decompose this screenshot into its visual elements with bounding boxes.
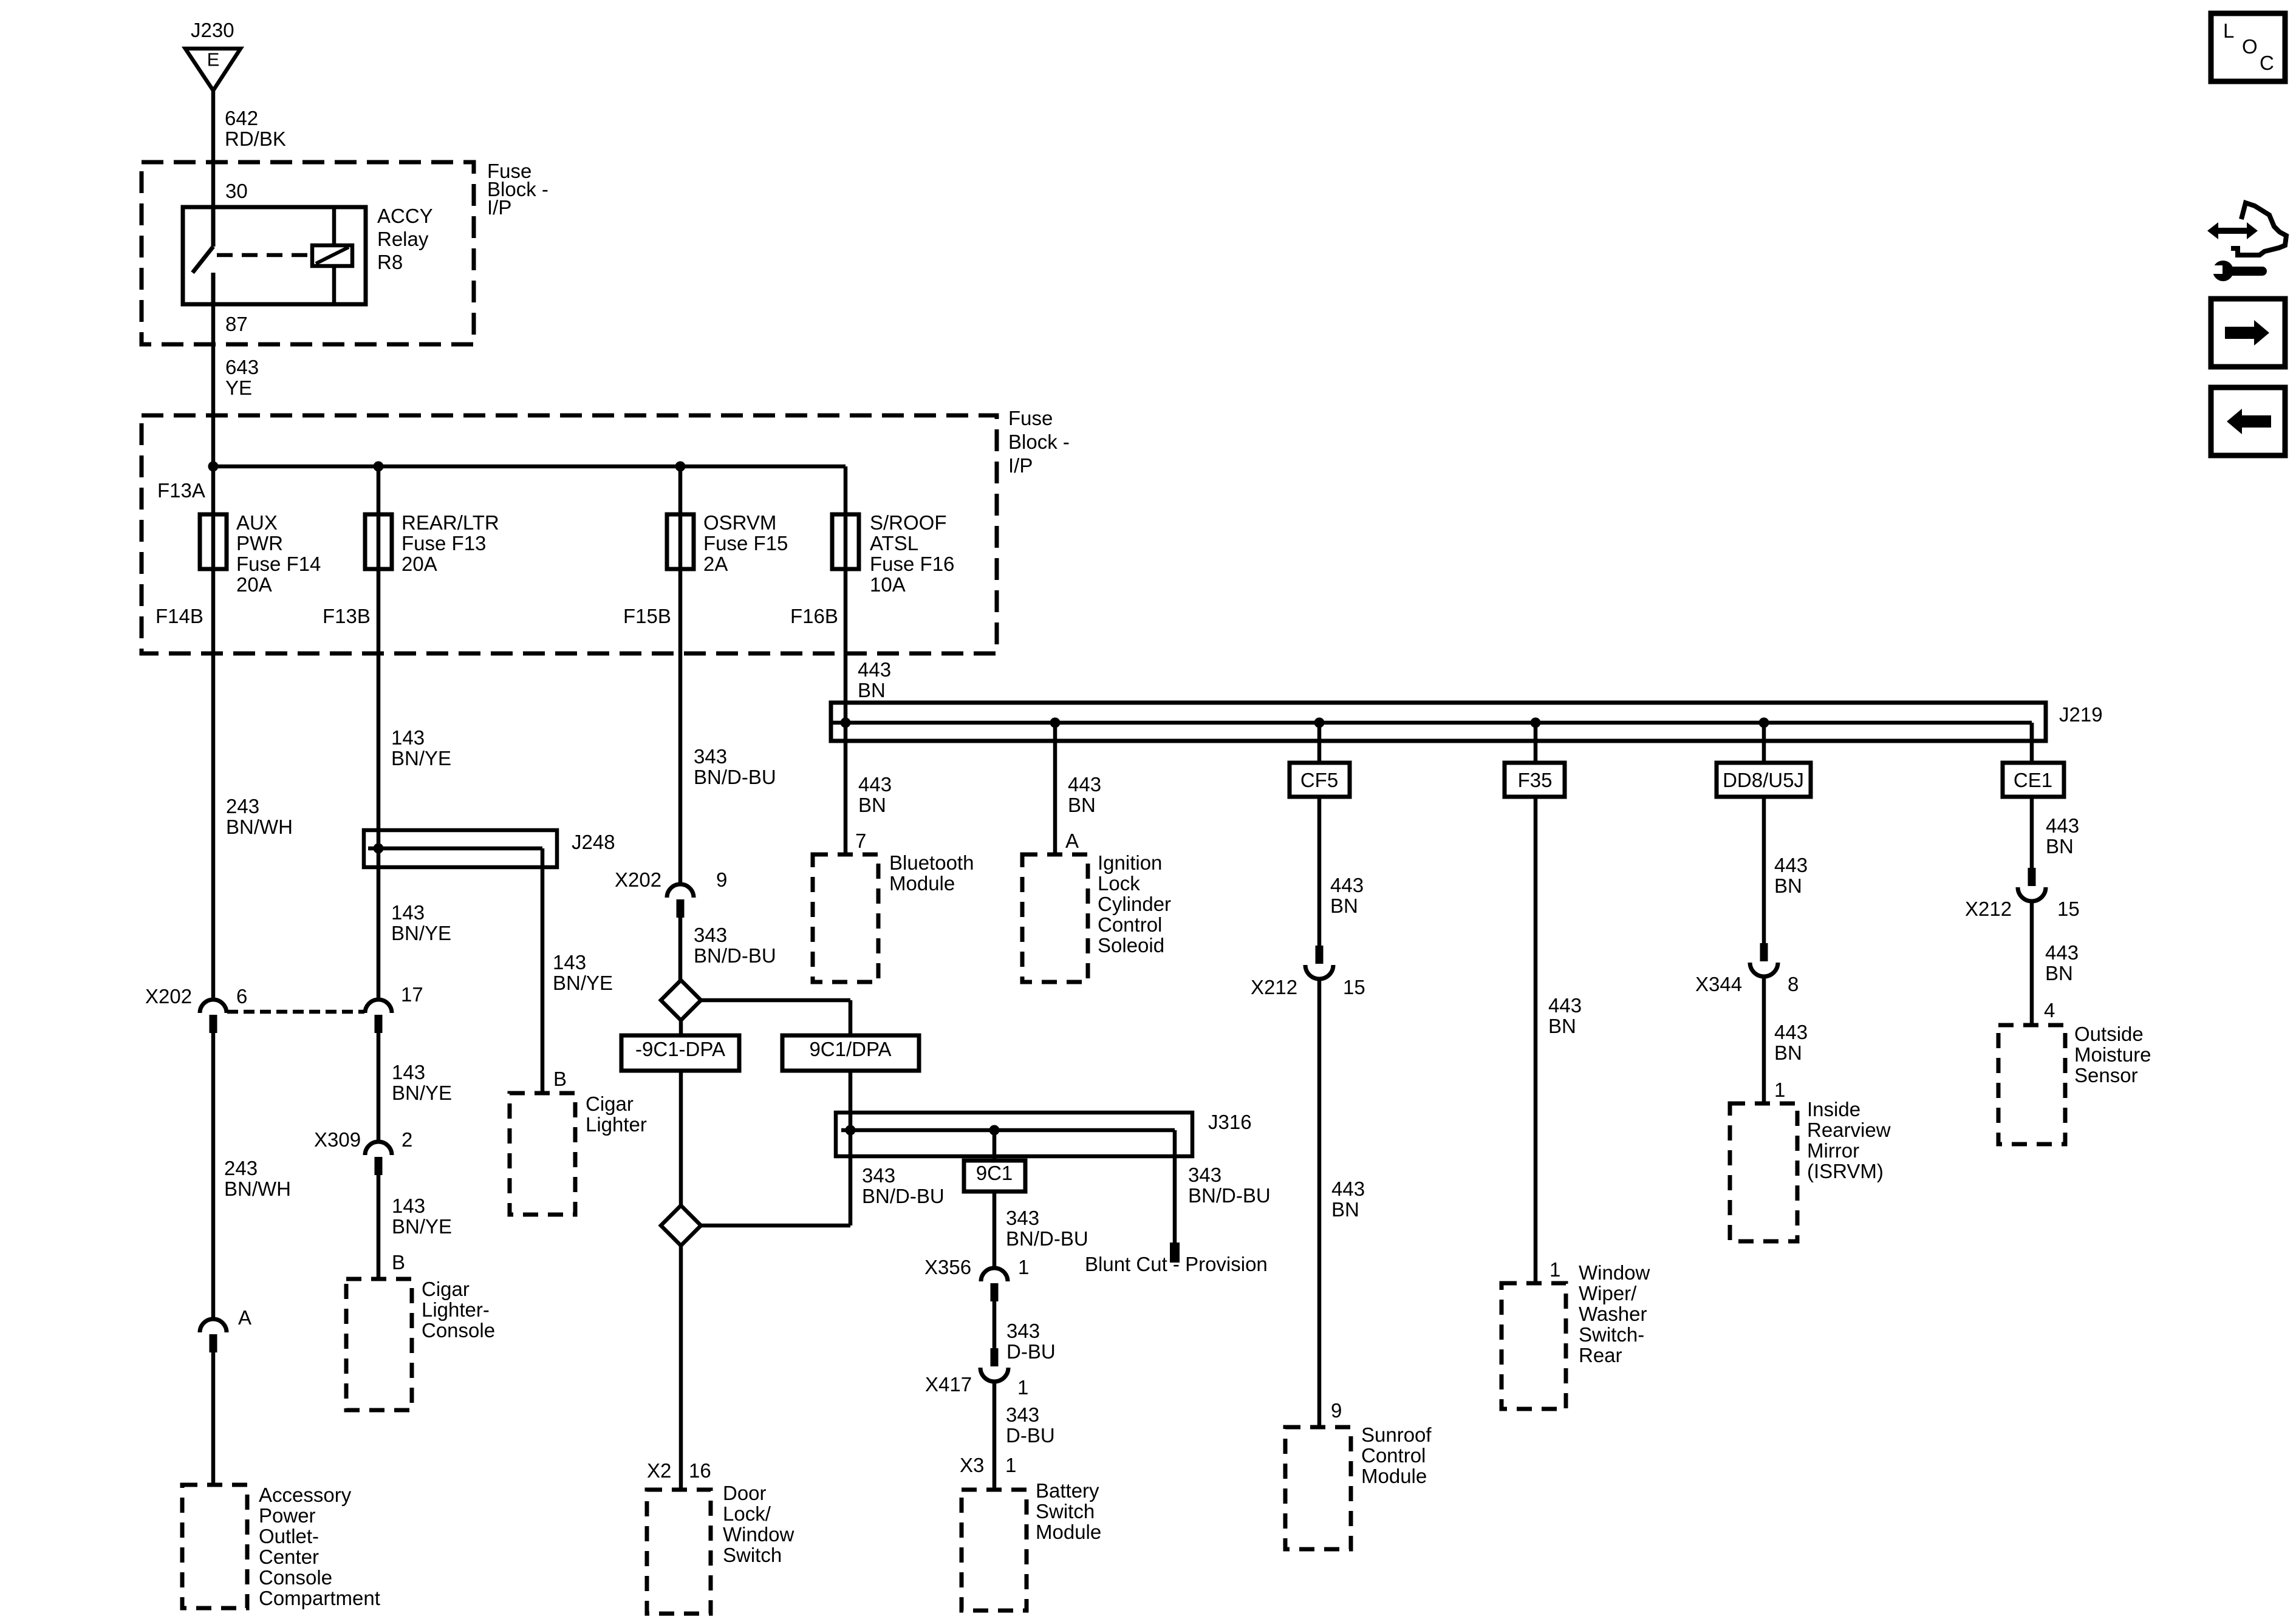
wire 343 BN/D-BU (blunt cut) [1173, 1156, 1177, 1243]
net label CE1 [2003, 763, 2064, 797]
svg-text:DD8/U5J: DD8/U5J [1723, 769, 1804, 791]
wire into 9C1/DPA [849, 1000, 853, 1035]
svg-text:9C1/DPA: 9C1/DPA [809, 1038, 891, 1060]
junction J248 tap [374, 844, 384, 854]
wire J219 to CF5 [1317, 723, 1322, 763]
wire splice to -9C1-DPA [679, 1020, 683, 1035]
window wiper/washer switch-rear [1502, 1283, 1566, 1409]
svg-text:CF5: CF5 [1300, 769, 1338, 791]
fuse F16 [832, 514, 859, 569]
bus wire F13A feed [213, 465, 846, 469]
inside rearview mirror (ISRVM) [1730, 1103, 1797, 1241]
wire 443 BN (DD8 down) [1762, 797, 1766, 943]
wire to fuse F15 [678, 466, 683, 569]
wire to fuse F14 [211, 415, 216, 569]
wire 443 BN (F16B down) [844, 569, 848, 703]
cigar lighter [510, 1093, 575, 1215]
svg-text:17: 17 [401, 983, 423, 1006]
wire to fuse F16 [844, 466, 848, 569]
wire to fuse F13 [377, 466, 381, 569]
svg-text:J248: J248 [572, 831, 615, 853]
connector X202 pin 6 [200, 1000, 227, 1033]
svg-text:J219: J219 [2059, 703, 2103, 726]
connector X356 pin 1 [981, 1268, 1008, 1301]
svg-text:X202: X202 [615, 868, 661, 891]
junction J219 2 [1050, 718, 1061, 728]
wire 642 RD/BK (J230 to relay pin 30) [211, 90, 216, 207]
bluetooth module [813, 854, 878, 982]
connector X309 pin 2 [365, 1142, 392, 1175]
connector E (power feed triangle J230) [185, 49, 241, 90]
svg-text:F35: F35 [1518, 769, 1553, 791]
svg-text:L: L [2223, 19, 2234, 42]
svg-text:1: 1 [1549, 1258, 1560, 1281]
svg-text:X309: X309 [314, 1128, 361, 1151]
svg-text:4: 4 [2044, 999, 2055, 1021]
net label F35 [1505, 763, 1565, 797]
icon: back arrow box [2211, 387, 2285, 455]
svg-text:B: B [392, 1251, 405, 1273]
splice rail J316 [836, 1113, 1192, 1156]
svg-text:F13A: F13A [157, 479, 205, 502]
svg-text:-9C1-DPA: -9C1-DPA [635, 1038, 725, 1060]
junction J316 left [846, 1125, 856, 1136]
wire to 9C1/DPA [701, 998, 850, 1003]
connector X417 pin 1 [980, 1348, 1008, 1382]
net label 9C1/DPA [782, 1035, 919, 1071]
svg-text:IgnitionLockCylinderControlSol: IgnitionLockCylinderControlSoleoid [1098, 851, 1171, 956]
LOC legend box [2211, 13, 2285, 81]
svg-text:F16B: F16B [790, 605, 838, 627]
wire 143 BN/YE (to X309) [377, 1032, 381, 1142]
svg-text:X344: X344 [1695, 973, 1742, 995]
splice diamond lower [661, 1205, 701, 1246]
svg-text:F15B: F15B [623, 605, 671, 627]
svg-text:X3: X3 [960, 1454, 984, 1476]
fuse block I/P enclosure (relay) [142, 162, 474, 344]
wire 143 BN/YE (F13B down) [377, 569, 381, 1000]
junction F14 tap [208, 462, 219, 472]
fuse block I/P enclosure (fuses) [142, 415, 997, 653]
wire 443 BN (to ignition lock solenoid) [1053, 723, 1057, 854]
svg-text:SunroofControlModule: SunroofControlModule [1361, 1423, 1432, 1487]
svg-text:J316: J316 [1208, 1111, 1252, 1133]
svg-text:1: 1 [1018, 1256, 1029, 1278]
svg-text:X417: X417 [925, 1373, 972, 1396]
wire 443 BN (to window wiper switch) [1534, 797, 1538, 1283]
blunt cut terminal [1170, 1243, 1180, 1263]
svg-text:F13B: F13B [323, 605, 371, 627]
wire 443 BN (to sunroof control module) [1317, 978, 1322, 1427]
wire to accessory outlet [211, 1352, 216, 1485]
junction F15 tap [675, 462, 686, 472]
wire 343 BN/D-BU (to splice) [678, 917, 683, 980]
junction J219 5 [1759, 718, 1769, 728]
svg-text:Blunt Cut - Provision: Blunt Cut - Provision [1085, 1253, 1268, 1275]
net label CF5 [1290, 763, 1350, 797]
svg-text:6: 6 [236, 985, 247, 1007]
svg-text:15: 15 [2057, 898, 2080, 920]
svg-text:X356: X356 [924, 1256, 971, 1278]
net label DD8/U5J [1717, 763, 1811, 797]
svg-text:X202: X202 [145, 985, 192, 1007]
svg-text:A: A [1065, 830, 1079, 852]
wire 343 D-BU (to battery switch module) [993, 1381, 997, 1490]
wire 9C1/DPA through J316 down [849, 1071, 853, 1226]
battery switch module [962, 1490, 1027, 1611]
svg-text:9: 9 [1331, 1399, 1342, 1422]
connector X202 pin 9 [667, 884, 694, 918]
junction J219 1 [841, 718, 851, 728]
wire J219 to CE1 [2030, 723, 2034, 763]
icon: wrench [2207, 261, 2267, 281]
junction J316 middle [989, 1125, 1000, 1136]
wire 443 BN (CF5 down) [1317, 797, 1322, 946]
wire 443 BN (to ISRVM) [1762, 976, 1766, 1103]
wire 143 BN/YE (J248 branch) [541, 867, 545, 1093]
connector X212 pin 15 (sunroof) [1305, 946, 1333, 979]
svg-text:9C1: 9C1 [976, 1162, 1013, 1184]
door lock/window switch [647, 1490, 711, 1614]
fuse F13 [365, 514, 392, 569]
dashed connector tie X202 [227, 1010, 364, 1014]
svg-text:87: 87 [225, 313, 248, 335]
wire 643 YE (relay 87 to fuse block) [211, 304, 216, 415]
svg-text:F14B: F14B [155, 605, 203, 627]
svg-text:X2: X2 [647, 1459, 671, 1482]
svg-text:A: A [238, 1306, 251, 1329]
svg-text:15: 15 [1343, 976, 1365, 998]
net label -9C1-DPA [621, 1035, 739, 1071]
wire to door lock/window switch [679, 1246, 683, 1490]
svg-text:16: 16 [689, 1459, 711, 1482]
svg-text:O: O [2242, 35, 2258, 58]
svg-text:X212: X212 [1965, 898, 2012, 920]
connector X344 pin 8 [1750, 943, 1778, 977]
relay R8 (ACCY relay) [183, 207, 366, 304]
wire 243 BN/WH (to outlet) [211, 1032, 216, 1319]
splice diamond upper [661, 980, 701, 1020]
wire 343 BN/D-BU (9C1 down) [993, 1192, 997, 1268]
wire 443 BN (to bluetooth module) [844, 703, 848, 854]
sunroof control module [1285, 1427, 1351, 1549]
junction J219 3 [1314, 718, 1325, 728]
junction J219 4 [1531, 718, 1541, 728]
icon: forward arrow box [2211, 299, 2285, 367]
svg-text:J230: J230 [191, 19, 234, 41]
wire J219 to DD8/U5J [1762, 723, 1766, 763]
fuse F15 [667, 514, 694, 569]
wire 343 D-BU (X356 to X417) [993, 1301, 997, 1348]
svg-text:1: 1 [1774, 1079, 1785, 1101]
outside moisture sensor [1998, 1025, 2065, 1144]
fuse F14 [200, 514, 227, 569]
wire J219 to F35 [1534, 723, 1538, 763]
svg-text:CE1: CE1 [2014, 769, 2052, 791]
connector X202 pin 17 [365, 1000, 392, 1033]
wire 143 BN/YE (to cigar lighter console) [377, 1174, 381, 1279]
wire J316 to 9C1 [993, 1130, 997, 1161]
splice rail J219 [831, 703, 2046, 741]
svg-text:7: 7 [855, 830, 866, 852]
svg-text:C: C [2260, 52, 2274, 74]
svg-text:2: 2 [401, 1128, 412, 1151]
cigar lighter - console [346, 1279, 412, 1410]
wire 343 BN/D-BU (F15B down) [678, 569, 683, 884]
svg-text:1: 1 [1005, 1454, 1016, 1476]
net label 9C1 [964, 1161, 1025, 1192]
wire -9C1-DPA down [679, 1071, 683, 1205]
splice rail J248 [364, 830, 557, 867]
svg-text:1: 1 [1017, 1376, 1028, 1399]
svg-text:9: 9 [716, 868, 727, 891]
icon: car body outline [2231, 203, 2286, 255]
connector X212 pin 15 (sensor) [2018, 868, 2046, 901]
junction F13 tap [374, 462, 384, 472]
svg-text:B: B [553, 1068, 567, 1090]
svg-text:BatterySwitchModule: BatterySwitchModule [1036, 1479, 1101, 1543]
svg-text:X212: X212 [1251, 976, 1297, 998]
svg-text:E: E [207, 49, 220, 70]
ignition lock cylinder control soleoid [1022, 854, 1088, 982]
svg-text:30: 30 [225, 180, 248, 202]
icon: double arrow [2207, 222, 2258, 239]
wire lower splice to 343 drop [701, 1224, 850, 1228]
accessory power outlet - center console compartment [182, 1485, 247, 1608]
wire 243 BN/WH (F14B down) [211, 569, 216, 1000]
connector pin A [200, 1319, 227, 1352]
wire 443 BN (CE1 down) [2030, 797, 2034, 868]
wire 443 BN (to outside moisture sensor) [2030, 901, 2034, 1025]
svg-text:8: 8 [1788, 973, 1799, 995]
